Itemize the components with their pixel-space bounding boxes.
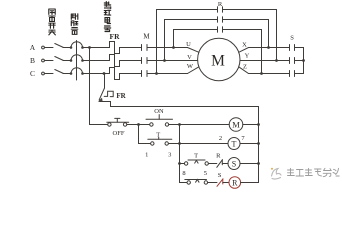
node W tap (delta loop outer, left) bbox=[155, 72, 158, 75]
pushbutton ON (NO start button) bbox=[146, 115, 173, 127]
wire T-branch drop bbox=[139, 125, 151, 144]
wire FR contact output to right rail feed bbox=[100, 102, 259, 107]
svg-text:S: S bbox=[290, 35, 294, 42]
svg-text:T: T bbox=[156, 132, 160, 139]
svg-text:T: T bbox=[194, 153, 198, 160]
node S coil rail join bbox=[257, 162, 260, 165]
node T coil rail join bbox=[257, 142, 260, 145]
wire inner loop top bbox=[174, 29, 262, 31]
breaker pole B (arc dome) bbox=[71, 55, 83, 61]
wire C2 bbox=[63, 73, 71, 75]
wire middle loop left riser bbox=[164, 20, 166, 61]
svg-text:B: B bbox=[30, 56, 35, 65]
contactor S contact (Y line) bbox=[290, 58, 295, 64]
svg-text:V: V bbox=[187, 54, 192, 61]
wire S row start bbox=[180, 163, 185, 165]
wire motor lead Y bbox=[240, 60, 290, 62]
wire motor lead W bbox=[188, 67, 199, 74]
svg-text:A: A bbox=[30, 43, 36, 52]
node T-coil-row junction bbox=[178, 142, 181, 145]
svg-text:U: U bbox=[186, 41, 191, 48]
terminal A bbox=[42, 46, 45, 49]
wire M coil to rail bbox=[243, 124, 259, 126]
svg-text:Z: Z bbox=[243, 64, 247, 71]
terminal B bbox=[42, 59, 45, 62]
pushbutton OFF (NC stop button) bbox=[107, 118, 129, 126]
wire S coil to rail bbox=[240, 163, 259, 165]
wire to R coil bbox=[223, 182, 229, 184]
svg-text:M: M bbox=[211, 53, 225, 70]
node control tap on phase C bbox=[103, 72, 106, 75]
FR heater element pole A bbox=[110, 42, 142, 54]
coil T bbox=[228, 138, 240, 150]
wire A2 bbox=[63, 47, 71, 49]
contactor R contact (inner loop) bbox=[218, 27, 223, 33]
time relay delayed contact (R row) bbox=[185, 180, 208, 185]
wire B4 bbox=[147, 60, 198, 62]
FR heater element pole B bbox=[110, 55, 142, 67]
node post-ON junction bbox=[178, 123, 181, 126]
svg-text:M: M bbox=[143, 33, 150, 41]
wire T coil row bbox=[180, 143, 229, 145]
wire inner loop left riser bbox=[173, 30, 175, 48]
wire R row drop bbox=[180, 164, 188, 183]
svg-text:M: M bbox=[232, 120, 240, 130]
wire C3 bbox=[83, 73, 110, 75]
svg-text:5: 5 bbox=[204, 170, 207, 177]
node X join (delta loop middle, right) bbox=[267, 46, 270, 49]
svg-text:7: 7 bbox=[241, 135, 245, 142]
wire motor lead Z bbox=[239, 67, 290, 74]
contactor S contact (Z line) bbox=[290, 71, 295, 77]
isolating switch blade pole C bbox=[55, 70, 64, 74]
wire to S coil bbox=[222, 163, 228, 165]
motor M1 (circle) bbox=[198, 38, 240, 80]
node U tap (delta loop inner, left) bbox=[172, 46, 175, 49]
wire FR contact feed bbox=[104, 74, 106, 89]
wire OFF to junction bbox=[127, 124, 150, 126]
contactor M main contact pole B bbox=[142, 58, 148, 64]
FR heater element pole C bbox=[110, 68, 142, 80]
wire control right rail bbox=[258, 107, 260, 183]
wire inner loop right drop bbox=[261, 30, 263, 74]
node star point bbox=[302, 59, 305, 62]
wire ON to M coil bbox=[169, 124, 230, 126]
wire A1 bbox=[44, 47, 53, 49]
svg-text:Y: Y bbox=[245, 53, 250, 60]
coil R (red) bbox=[229, 177, 241, 189]
node S-row junction bbox=[178, 162, 181, 165]
terminal C bbox=[42, 72, 45, 75]
svg-text:OFF: OFF bbox=[113, 130, 125, 137]
node Z join (delta loop inner, right) bbox=[260, 72, 263, 75]
node V tap (delta loop middle, left) bbox=[163, 59, 166, 62]
label 断路器 (circuit breaker, vertical text) bbox=[71, 14, 78, 35]
svg-text:R: R bbox=[216, 153, 221, 160]
time relay delayed contact T (8-5) bbox=[184, 160, 208, 165]
wire Y to star bar bbox=[295, 60, 304, 62]
svg-text:R: R bbox=[232, 178, 238, 187]
contactor S contact (X line) bbox=[290, 45, 295, 51]
contactor M main contact pole A bbox=[142, 45, 148, 51]
breaker linkage bar bbox=[76, 41, 78, 81]
coil S bbox=[228, 158, 240, 170]
svg-text:T: T bbox=[232, 139, 237, 148]
svg-text:S: S bbox=[218, 172, 222, 179]
coil M bbox=[229, 118, 243, 132]
wire branch riser bbox=[179, 125, 181, 164]
label 热继电器 (thermal relay, vertical text) bbox=[104, 2, 110, 32]
contactor R contact (outer loop) bbox=[218, 7, 223, 13]
wire B1 bbox=[44, 60, 53, 62]
svg-text:FR: FR bbox=[110, 32, 121, 41]
svg-text:FR: FR bbox=[116, 92, 126, 100]
wire T contact to junction bbox=[169, 143, 180, 145]
svg-text:S: S bbox=[232, 159, 236, 168]
svg-text:1: 1 bbox=[145, 152, 148, 159]
wire motor lead U bbox=[188, 48, 199, 53]
svg-text:W: W bbox=[187, 63, 194, 70]
wire T coil to rail bbox=[240, 143, 259, 145]
contactor R contact (middle loop) bbox=[218, 17, 223, 23]
wire motor lead X bbox=[239, 48, 290, 53]
watermark logo bbox=[271, 168, 281, 179]
wire middle loop right drop bbox=[268, 20, 270, 48]
wire middle loop top bbox=[165, 19, 269, 21]
wire C4 bbox=[147, 73, 188, 75]
wire outer loop top bbox=[157, 9, 277, 11]
node T-branch junction bbox=[137, 123, 140, 126]
breaker pole C (arc dome) bbox=[71, 68, 83, 74]
contactor R NC interlock contact bbox=[217, 160, 223, 168]
wire A4 bbox=[147, 47, 188, 49]
label 隔离开关 (isolating switch, vertical text) bbox=[49, 9, 56, 35]
time relay contact T (1-3, parallel with ON) bbox=[148, 137, 172, 145]
svg-text:ON: ON bbox=[154, 108, 164, 115]
node control tap on phase A bbox=[88, 46, 91, 49]
watermark text 电工电气学习 bbox=[288, 168, 340, 176]
svg-text:R: R bbox=[218, 1, 223, 8]
wire control left rail bbox=[89, 48, 91, 125]
breaker pole A (arc dome) bbox=[71, 42, 83, 48]
svg-text:X: X bbox=[242, 42, 247, 49]
isolating switch blade pole B bbox=[55, 57, 64, 61]
wire X to star bar bbox=[295, 47, 304, 49]
wire R coil to rail bbox=[241, 182, 259, 184]
wire A3 bbox=[83, 47, 110, 49]
svg-text:3: 3 bbox=[168, 152, 171, 159]
wire outer loop right drop bbox=[276, 10, 278, 61]
svg-text:2: 2 bbox=[219, 135, 222, 142]
svg-text:C: C bbox=[30, 69, 35, 78]
wire outer loop left riser bbox=[156, 10, 158, 74]
wire C1 bbox=[44, 73, 53, 75]
node M coil rail join bbox=[257, 123, 260, 126]
thermal relay FR NC contact bbox=[98, 88, 113, 102]
isolating switch blade pole A bbox=[55, 44, 64, 48]
wire to S interlock bbox=[208, 182, 217, 184]
wire control line left bbox=[90, 124, 108, 126]
wire B2 bbox=[63, 60, 71, 62]
wire star point bar bbox=[303, 48, 305, 74]
wire B3 bbox=[83, 60, 110, 62]
wire to R interlock bbox=[208, 163, 216, 165]
wire Z to star bar bbox=[295, 73, 304, 75]
contactor M main contact pole C bbox=[142, 71, 148, 77]
svg-text:8: 8 bbox=[182, 170, 185, 177]
node Y join (delta loop outer, right) bbox=[275, 59, 278, 62]
contactor S NC interlock contact (red) bbox=[217, 179, 223, 187]
